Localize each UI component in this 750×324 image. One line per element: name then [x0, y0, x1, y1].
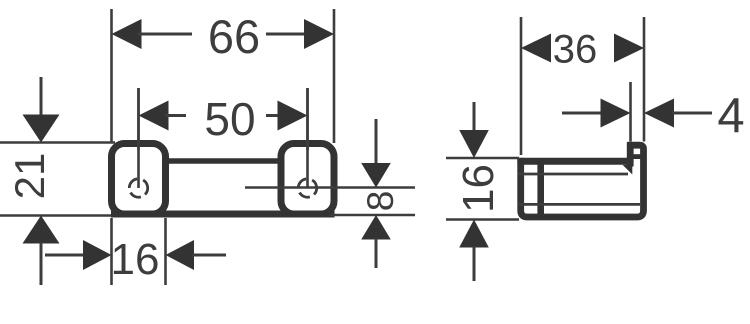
- front view: bar top edge: [164, 158, 282, 164]
- svg-text:66: 66: [208, 10, 260, 63]
- dim 4: right arrow: [644, 99, 674, 128]
- dim 50: left extension line: [137, 88, 140, 150]
- svg-text:50: 50: [204, 93, 255, 145]
- dim 50: left leader line: [165, 114, 186, 117]
- side view: lip hole bottom fill: [632, 154, 642, 159]
- dim 16 front: right leader line: [192, 254, 226, 257]
- dim 66: left leader line: [138, 33, 192, 36]
- dim 4: left arrow: [601, 99, 631, 128]
- dim 4: left leader line: [562, 112, 603, 115]
- dim 36: left arrow: [521, 34, 551, 63]
- dim 66: right extension line: [333, 9, 336, 143]
- front view: left wall plate: [112, 144, 166, 215]
- dim 50: right arrow: [278, 101, 308, 131]
- dim 16 front: right extension line: [164, 218, 167, 285]
- dim 16 front: left arrow: [83, 240, 112, 270]
- side view: inner bottom line: [518, 203, 640, 206]
- screw symbol right: dashed circle: [298, 179, 316, 197]
- dim 4: left extension line: [629, 82, 632, 142]
- dim 4: right leader line: [672, 112, 712, 115]
- svg-text:4: 4: [717, 89, 744, 143]
- screw symbol left: stem: [137, 88, 140, 188]
- dim 21: top arrow stem: [40, 77, 43, 118]
- dim 16 side: top arrow: [459, 130, 489, 158]
- dim 8: bottom extension line: [330, 214, 415, 217]
- dim 8: bottom arrow: [361, 215, 391, 240]
- dim 50: right extension line: [306, 88, 309, 150]
- dim 36: left extension line: [520, 17, 523, 155]
- dim 16 side: bottom extension line: [446, 218, 519, 221]
- dim 21: bottom arrow stem: [40, 242, 43, 285]
- screw symbol left: dashed circle: [129, 179, 147, 197]
- dim 16 front: left extension line: [110, 218, 113, 285]
- dim 16 side: top arrow stem: [473, 102, 476, 132]
- svg-text:16: 16: [111, 235, 160, 284]
- dim 16 side: bottom arrow stem: [473, 246, 476, 281]
- dim 16 side: top extension line: [446, 157, 519, 160]
- dim 66: right leader line: [266, 33, 307, 36]
- dim 21: top arrow: [23, 115, 60, 143]
- dim 8: top extension line: [245, 186, 415, 189]
- dim 50: right leader line: [266, 114, 280, 117]
- dim 21: bottom extension line: [0, 214, 111, 217]
- side view: tab left edge: [627, 142, 634, 167]
- dim 8: bottom arrow stem: [375, 238, 378, 268]
- dim 21: bottom arrow: [23, 216, 60, 244]
- side view: lip wedge: [623, 165, 633, 175]
- side view: inner top line: [518, 173, 628, 176]
- dim 8: top arrow: [361, 163, 391, 188]
- dim 8: top arrow stem: [375, 119, 378, 165]
- side view: outer contour (left, bottom, right edges and tab top): [521, 145, 644, 217]
- dim 16 side: bottom arrow: [459, 220, 489, 248]
- svg-text:36: 36: [553, 28, 598, 72]
- svg-text:16: 16: [454, 164, 503, 213]
- dim 21: top extension line: [0, 141, 115, 144]
- dim 66: left extension line: [110, 9, 113, 143]
- dim 16 front: right arrow: [166, 240, 195, 270]
- dim 66: left arrow: [112, 19, 142, 49]
- dim 36: right arrow: [614, 34, 644, 63]
- side view: inner vertical wall line: [537, 158, 544, 217]
- svg-text:21: 21: [6, 153, 53, 200]
- front view: right wall plate: [281, 144, 334, 215]
- svg-text:8: 8: [360, 191, 401, 212]
- screw symbol right: stem: [306, 88, 309, 188]
- front view: bar/plates bottom edge: [111, 211, 335, 218]
- dim 36: right extension line: [643, 17, 646, 142]
- dim 50: left arrow: [139, 101, 169, 131]
- dim 16 front: left leader line: [45, 254, 85, 257]
- side view: top edge: [517, 158, 633, 165]
- dim 66: right arrow: [304, 19, 334, 49]
